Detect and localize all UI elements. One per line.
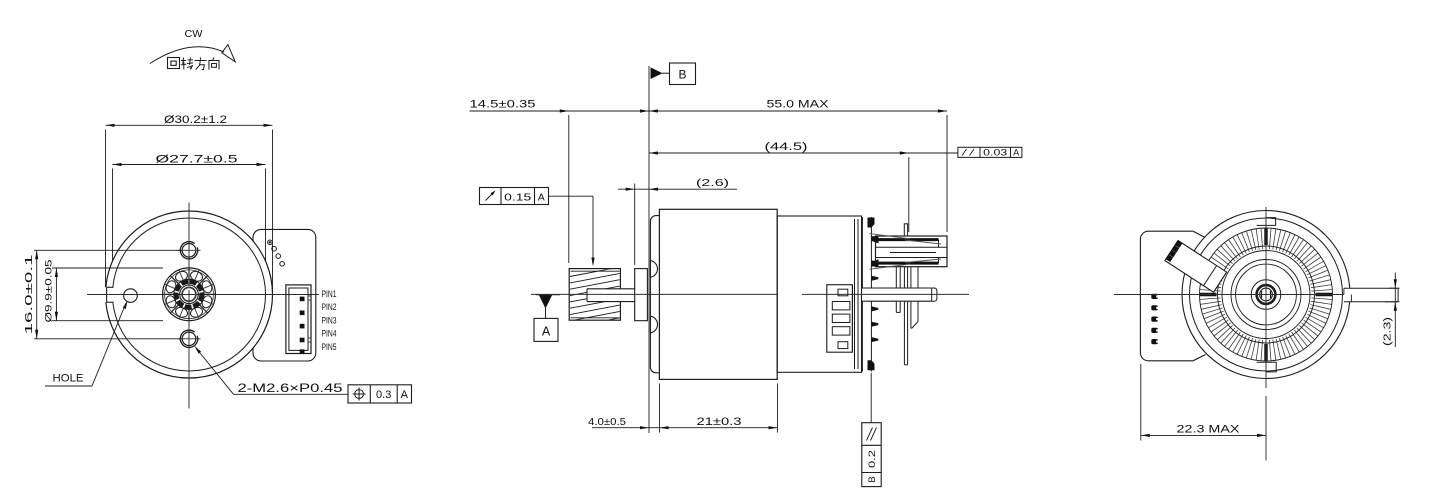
HOLE circle [124, 289, 138, 303]
GD&T frame circular runout 0.15 A with leader [480, 188, 549, 205]
vent slot ring [1311, 298, 1332, 300]
leader and label 2-M2.6×P0.45 [196, 348, 234, 394]
GD&T frame parallel 0.03 A (top right) [958, 147, 1022, 157]
brush plate [861, 217, 863, 372]
svg-text:HOLE: HOLE [53, 373, 84, 385]
4 vent holes near tab [268, 240, 273, 245]
hub [1251, 280, 1281, 310]
left notch [104, 287, 118, 302]
dimension (2.3) [1389, 287, 1400, 289]
screw hole bottom (M2.6) [182, 332, 196, 346]
svg-text:4.0±0.5: 4.0±0.5 [588, 416, 626, 428]
svg-text:A: A [1013, 148, 1019, 158]
rear shaft hub [862, 288, 932, 301]
svg-text:(2.6): (2.6) [696, 177, 729, 189]
dimension Ø9.9±0.05 (vertical) [55, 268, 57, 321]
GD&T frame position 0.3 A [348, 385, 412, 403]
svg-text:PIN5: PIN5 [322, 342, 337, 352]
mounting face line (B extension) [648, 66, 650, 433]
connector block inside end cap (side view) [827, 285, 853, 353]
GD&T frame parallel 0.2 B (bottom, vertical) [870, 373, 872, 423]
gear boss / knurled hub [163, 268, 216, 321]
shell diagonal wires [870, 234, 911, 239]
svg-text:PIN1: PIN1 [322, 289, 337, 299]
dimension 16.0±0.1 (vertical) [36, 250, 38, 338]
screw hole top (M2.6) [182, 244, 196, 258]
top pin on shell [904, 224, 907, 236]
rear terminal shell [876, 236, 948, 267]
centerline side view [531, 293, 777, 295]
svg-text:0.15: 0.15 [504, 191, 531, 203]
motor body circles front view [106, 211, 273, 378]
svg-text:PIN3: PIN3 [322, 315, 337, 325]
top notch [1257, 218, 1276, 226]
motor body side view [659, 209, 777, 379]
svg-text:(44.5): (44.5) [765, 141, 808, 153]
5 pin sockets on bracket [1151, 294, 1158, 299]
svg-text:PIN4: PIN4 [322, 329, 337, 339]
bottom notch [1257, 362, 1277, 372]
front bearing boss [635, 269, 648, 321]
datum flag A [536, 294, 560, 296]
label 回转方向 (rotation direction), hand-drawn glyphs [168, 58, 180, 69]
svg-text:Ø30.2±1.2: Ø30.2±1.2 [164, 114, 227, 126]
cardinal black slots [1316, 293, 1333, 296]
hub dark ring and shaft bore [176, 282, 201, 307]
dimension 22.3 MAX [1140, 364, 1142, 441]
svg-text:(2.3): (2.3) [1381, 317, 1393, 346]
terminal teeth [872, 260, 879, 265]
connector front view (5-pin) [286, 285, 311, 354]
diagonal connector (rear) [1165, 241, 1227, 293]
svg-text:55.0 MAX: 55.0 MAX [767, 99, 830, 111]
svg-text:14.5±0.35: 14.5±0.35 [470, 99, 536, 111]
front mounting plate [650, 216, 659, 373]
connector pins (black squares) [1175, 240, 1182, 247]
left bracket (connector housing) [1140, 231, 1205, 361]
svg-text:PIN2: PIN2 [322, 302, 337, 312]
svg-text:Ø27.7±0.5: Ø27.7±0.5 [156, 154, 238, 166]
centerlines front view [188, 203, 190, 287]
svg-text:16.0±0.1: 16.0±0.1 [24, 254, 35, 335]
slot ring boundary circles [1200, 228, 1333, 361]
svg-text:A: A [538, 191, 545, 203]
centerlines rear view [1265, 207, 1267, 388]
left dim extension lines [34, 249, 182, 251]
inner circles [1222, 251, 1310, 339]
end cap side view [777, 216, 861, 372]
svg-text:22.3 MAX: 22.3 MAX [1177, 423, 1241, 435]
svg-text:2-M2.6×P0.45: 2-M2.6×P0.45 [238, 383, 343, 395]
svg-text:CW: CW [185, 28, 203, 40]
svg-text:A: A [542, 325, 551, 339]
datum flag B [670, 63, 696, 85]
rear shaft stub [1344, 288, 1398, 302]
rear outer circles [1182, 211, 1350, 379]
svg-text:Ø9.9±0.05: Ø9.9±0.05 [44, 260, 54, 323]
svg-text:0.03: 0.03 [983, 148, 1007, 158]
svg-text:B: B [678, 68, 686, 82]
shaft front [587, 289, 635, 302]
svg-text:0.2: 0.2 [867, 450, 878, 468]
worm gear on shaft [569, 269, 620, 321]
mounting pegs (half discs) [650, 261, 657, 278]
vertical terminal plates [895, 267, 897, 313]
svg-text:A: A [401, 389, 409, 401]
svg-text:21±0.3: 21±0.3 [697, 416, 742, 428]
svg-text:B: B [867, 476, 878, 482]
connector tab (right side of front view) [253, 229, 316, 361]
svg-text:0.3: 0.3 [376, 389, 391, 401]
rotation arc with arrowhead [150, 47, 224, 64]
